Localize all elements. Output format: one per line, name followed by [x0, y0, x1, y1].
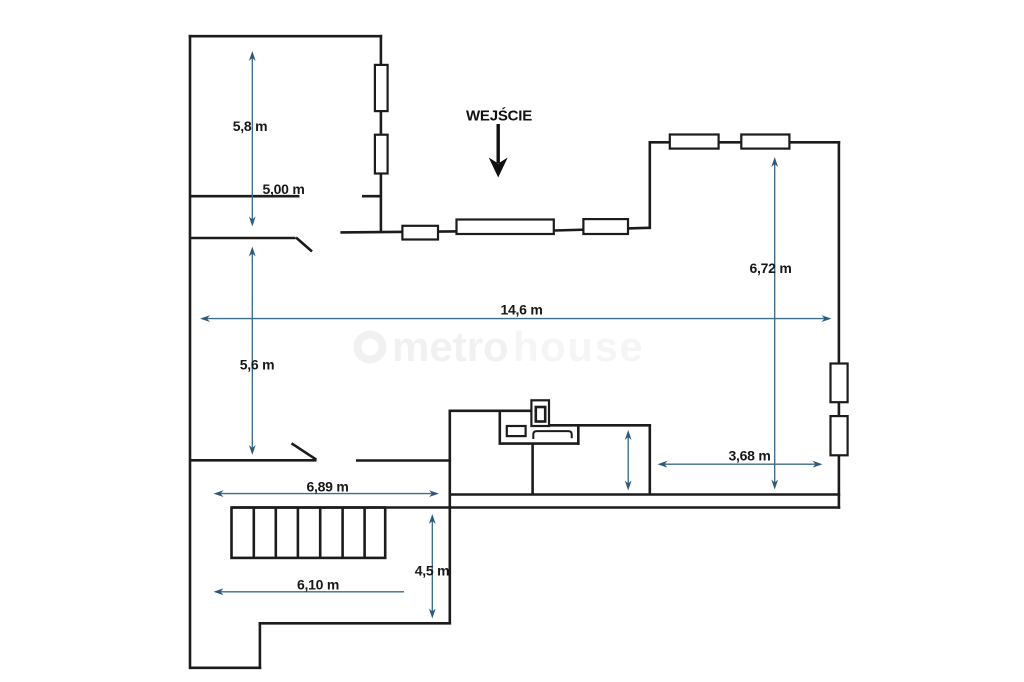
svg-text:house: house [513, 323, 644, 370]
door swing lower [292, 443, 317, 459]
wall vertical step up to top-right [648, 141, 651, 229]
wall top of upper-left room [189, 35, 383, 38]
dimension 6,10 m line [219, 591, 405, 593]
dimension 4,5 m line [431, 519, 433, 614]
svg-text:3,68 m: 3,68 m [728, 448, 770, 464]
appliance inner dark rect [536, 407, 545, 422]
wall bottom step vertical [259, 622, 262, 669]
wall lower partition right part [356, 459, 451, 462]
window W5 corridor medium [583, 219, 628, 234]
svg-text:WEJŚCIE: WEJŚCIE [466, 107, 532, 125]
wall left exterior [189, 35, 192, 669]
dimension 4,5 m arrowhead up [429, 514, 436, 524]
dimension kitchen arrowhead down [625, 481, 632, 491]
window W6 top-right [670, 135, 719, 149]
door swing upper [296, 238, 312, 252]
wall bottom long lower line [232, 506, 841, 509]
wall bottom step horizontal [259, 622, 452, 625]
svg-text:4,5 m: 4,5 m [415, 563, 450, 579]
dimension 14,6 m line [205, 318, 827, 320]
dimension kitchen arrowhead up [625, 430, 632, 440]
dimension kitchen vertical line [627, 435, 629, 486]
wall kitchen bottom long [450, 493, 840, 496]
dimension 5,8 m arrowhead down [249, 217, 256, 227]
wall 5,00 m partition [190, 195, 300, 198]
window W7 top-right [741, 135, 789, 149]
watermark logo circle [358, 335, 383, 360]
stairs step line 5 [341, 508, 344, 558]
svg-text:metro: metro [392, 323, 509, 370]
counter right edge [577, 425, 580, 445]
wall kitchen internal [531, 444, 534, 495]
svg-text:5,00 m: 5,00 m [262, 181, 304, 197]
window W4 corridor large [457, 220, 554, 235]
entrance arrow head [489, 158, 508, 178]
window W3 corridor small [402, 226, 438, 240]
dimension 3,68 m line [663, 463, 818, 465]
stairs step line 4 [319, 508, 322, 558]
wall right exterior [838, 141, 841, 509]
dimension 14,6 m arrowhead right [822, 315, 832, 322]
dimension 5,6 m line [251, 252, 253, 451]
svg-text:14,6 m: 14,6 m [500, 302, 542, 318]
entrance arrow shaft [497, 124, 500, 163]
dimension 3,68 m arrowhead right [813, 461, 823, 468]
dimension 6,72 m line [774, 162, 776, 485]
wall entrance corridor bottom [340, 228, 649, 233]
svg-text:6,89 m: 6,89 m [306, 479, 348, 495]
dimension 5,6 m arrowhead down [249, 445, 256, 455]
counter small rect fixture [507, 426, 526, 436]
wall second partition below [190, 237, 296, 240]
dimension 6,89 m arrowhead left [214, 490, 224, 497]
wall bottom exterior [190, 666, 261, 669]
dimension 6,72 m arrowhead up [771, 157, 778, 167]
dimension 4,5 m arrowhead down [429, 609, 436, 619]
dimension 5,8 m line [251, 56, 253, 222]
svg-text:6,72 m: 6,72 m [749, 260, 791, 276]
wall kitchen top right part [549, 424, 651, 427]
wall tick at 5,00 m line [362, 195, 381, 198]
appliance box on kitchen wall [531, 400, 549, 426]
window W2 upper-left room [375, 135, 388, 174]
wall kitchen left [448, 410, 451, 625]
dimension 14,6 m arrowhead left [200, 315, 210, 322]
dimension 6,72 m arrowhead down [771, 480, 778, 490]
svg-text:5,8 m: 5,8 m [233, 118, 268, 134]
wall kitchen top left part [450, 409, 532, 412]
stairs step line 2 [274, 508, 277, 558]
dimension 6,89 m arrowhead right [429, 490, 439, 497]
dimension 5,8 m arrowhead up [249, 51, 256, 61]
sink outline [533, 431, 571, 439]
wall kitchen right [648, 425, 651, 494]
window W1 upper-left room [375, 65, 388, 111]
stairs step line 1 [253, 508, 256, 558]
dimension 6,10 m arrowhead left [214, 588, 224, 595]
counter left edge [498, 411, 501, 444]
wall lower partition left part [190, 459, 317, 462]
svg-text:5,6 m: 5,6 m [240, 357, 275, 373]
stairs step line 3 [297, 508, 300, 558]
window W9 right wall [831, 416, 848, 455]
dimension 3,68 m arrowhead left [658, 461, 668, 468]
dimension 5,6 m arrowhead up [249, 247, 256, 257]
stairs step line 6 [363, 508, 366, 558]
stairs outline [232, 508, 386, 558]
counter bottom edge [499, 442, 580, 445]
svg-text:6,10 m: 6,10 m [297, 577, 339, 593]
window W8 right wall [831, 364, 848, 403]
dimension 6,89 m line [219, 493, 435, 495]
wall top-right exterior [649, 141, 841, 144]
wall right of upper-left room [380, 35, 383, 233]
